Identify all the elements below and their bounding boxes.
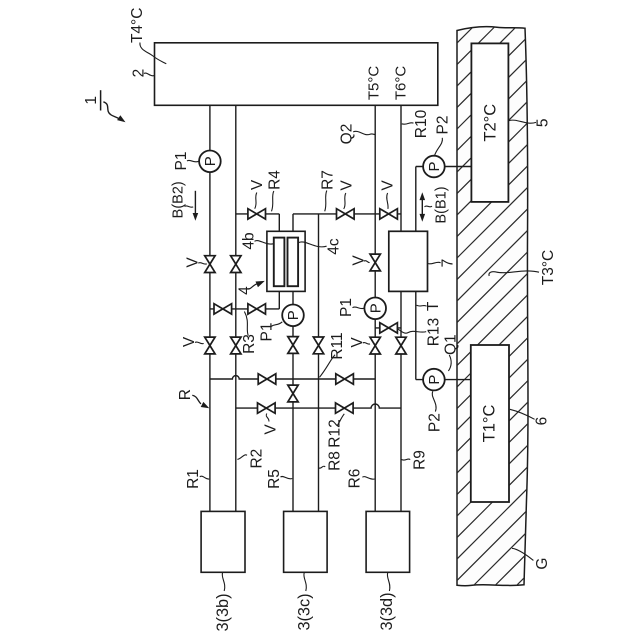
flow arrow B(B2) bbox=[193, 191, 199, 221]
label 4c bbox=[299, 238, 343, 255]
label 6 bbox=[510, 409, 550, 425]
svg-text:P: P bbox=[426, 375, 443, 385]
svg-text:P: P bbox=[426, 161, 443, 171]
pipe R2 (vertical pipe 2, unit2 to 3(3b) right) bbox=[235, 105, 237, 511]
svg-text:R9: R9 bbox=[411, 450, 428, 470]
label R with arrow bbox=[177, 389, 209, 408]
svg-text:1: 1 bbox=[83, 96, 100, 105]
heat source unit 2 bbox=[155, 43, 438, 106]
valve on pipe R8 bbox=[313, 337, 323, 354]
svg-text:3(3b): 3(3b) bbox=[214, 593, 232, 631]
svg-text:R: R bbox=[177, 389, 194, 400]
label R10 bbox=[402, 109, 430, 138]
label 7 bbox=[428, 259, 456, 268]
svg-text:4c: 4c bbox=[325, 238, 342, 255]
label V (R4 valve) bbox=[249, 179, 266, 209]
borehole heat exchanger 5 (T2) bbox=[471, 43, 508, 202]
svg-text:R1: R1 bbox=[185, 469, 202, 489]
pipe R12 (horizontal manifold line 2 with hop over pipe R6) bbox=[236, 404, 401, 408]
svg-text:R4: R4 bbox=[266, 170, 283, 190]
pipe R10 upper (T6 riser, unit2 to tank 7) bbox=[400, 105, 402, 231]
pump P1 (right, on T5 riser) bbox=[364, 298, 386, 320]
valve V on T5 riser bbox=[370, 254, 380, 271]
heat exchanger tube 4c bbox=[288, 238, 299, 287]
label R3 bbox=[241, 312, 258, 354]
label R8 bbox=[319, 451, 344, 471]
tank 7 bbox=[389, 231, 428, 291]
pipe R4 (horizontal branch to heat exchanger 4b) bbox=[236, 213, 279, 215]
label 3(3c) bbox=[296, 573, 314, 631]
pipe R11 (horizontal manifold line 1 with hop over pipe R2) bbox=[210, 376, 375, 379]
valve on manifold line 1 left bbox=[258, 374, 276, 384]
svg-text:R7: R7 bbox=[319, 170, 336, 190]
label V (pipe R upper valve) bbox=[184, 257, 207, 268]
label P1 (right pump) bbox=[338, 298, 364, 317]
label T4°C bbox=[129, 8, 167, 64]
valve R13 bbox=[380, 323, 398, 333]
label R6 bbox=[346, 469, 374, 489]
pump P2 (top right) bbox=[423, 156, 445, 178]
svg-text:T1°C: T1°C bbox=[481, 405, 499, 443]
label R4 bbox=[266, 170, 283, 212]
valve V between risers T5 T6 bbox=[380, 209, 398, 219]
pipe T (tank 7 bottom to pump P2) bbox=[415, 291, 417, 379]
heat exchanger tube 4b bbox=[274, 238, 285, 287]
valve V on pipe R upper bbox=[205, 256, 215, 273]
label 3(3d) bbox=[378, 573, 396, 631]
label T3°C bbox=[489, 250, 557, 285]
svg-text:V: V bbox=[184, 257, 201, 268]
svg-text:T5°C: T5°C bbox=[366, 66, 383, 101]
label R9 bbox=[401, 450, 428, 470]
svg-text:P: P bbox=[367, 303, 384, 313]
svg-text:T3°C: T3°C bbox=[540, 250, 557, 285]
svg-text:R2: R2 bbox=[248, 449, 265, 469]
flow arrow B(B1) double headed bbox=[420, 192, 426, 221]
svg-text:T4°C: T4°C bbox=[129, 8, 146, 43]
label 3(3b) bbox=[214, 573, 232, 632]
label P2 (bottom right) bbox=[426, 391, 443, 432]
svg-text:P2: P2 bbox=[435, 116, 452, 135]
label Q2 bbox=[339, 124, 375, 145]
label 2 bbox=[130, 69, 154, 78]
label R7 bbox=[319, 170, 336, 211]
svg-text:R11: R11 bbox=[329, 332, 346, 359]
unit 3(3b) bbox=[201, 511, 245, 572]
unit 3(3d) bbox=[366, 511, 410, 572]
valve on pipe R5 bbox=[288, 337, 298, 354]
svg-text:R3: R3 bbox=[241, 334, 258, 354]
label B(B2) bbox=[170, 181, 193, 218]
svg-text:Q1: Q1 bbox=[442, 334, 459, 355]
valve V on pipe R lower bbox=[205, 337, 215, 354]
label V (line2 valve) bbox=[262, 414, 279, 435]
valve V on pipe R2 upper bbox=[231, 256, 241, 273]
valve on pipe R3 right bbox=[248, 304, 266, 314]
svg-text:R8: R8 bbox=[326, 451, 343, 471]
svg-text:R5: R5 bbox=[266, 469, 283, 489]
pump P1 (middle, below tube 4c) bbox=[282, 305, 304, 327]
label R11 bbox=[320, 332, 346, 377]
valve on pipe R2 lower bbox=[231, 337, 241, 354]
svg-text:Q2: Q2 bbox=[339, 124, 356, 145]
label G bbox=[512, 548, 551, 569]
svg-text:T: T bbox=[425, 301, 442, 311]
valve V on pipe R4 bbox=[248, 209, 266, 219]
svg-text:R10: R10 bbox=[413, 109, 430, 138]
valve on manifold line 2 left bbox=[258, 403, 276, 413]
svg-text:B(B2): B(B2) bbox=[170, 181, 186, 218]
svg-text:V: V bbox=[262, 424, 279, 435]
valve on pipe R9 bbox=[396, 337, 406, 354]
svg-text:P1: P1 bbox=[338, 298, 355, 317]
pipe from pump P2 top to borehole 5 bbox=[415, 167, 417, 232]
pump P2 (bottom right) bbox=[423, 369, 445, 391]
svg-text:V: V bbox=[249, 179, 266, 190]
pipe R9 (tank 7 to 3(3d) right) bbox=[400, 291, 402, 511]
label R2 bbox=[237, 449, 265, 469]
label P2 (top right) bbox=[435, 116, 452, 156]
valve on manifold line 2 right bbox=[336, 403, 354, 413]
svg-text:5: 5 bbox=[534, 118, 551, 127]
pump P1 (top, on pipe R) bbox=[199, 151, 221, 173]
label V (riser valve) bbox=[380, 180, 397, 209]
label V (R6 valve) bbox=[349, 337, 370, 348]
unit 3(3c) bbox=[284, 511, 328, 572]
label 5 bbox=[509, 118, 552, 127]
label V (pipe R lower valve) bbox=[181, 336, 204, 347]
label 4b bbox=[240, 232, 273, 249]
valve on manifold line 1 right bbox=[336, 374, 354, 384]
svg-text:V: V bbox=[338, 180, 355, 191]
svg-text:G: G bbox=[534, 558, 551, 570]
svg-text:R12: R12 bbox=[326, 419, 343, 447]
label R5 bbox=[266, 469, 293, 489]
label V (R7 valve) bbox=[338, 180, 355, 209]
svg-text:7: 7 bbox=[439, 259, 456, 268]
svg-text:P: P bbox=[202, 156, 219, 166]
label P1 (middle pump) bbox=[258, 322, 282, 342]
pipe R3 (horizontal bypass below heat exchanger) bbox=[210, 308, 279, 310]
svg-text:B(B1): B(B1) bbox=[433, 186, 449, 223]
svg-text:4: 4 bbox=[236, 286, 253, 295]
pipe Q2/R6 (T5 riser, unit2 to 3(3d) left) bbox=[374, 105, 376, 511]
pipe R (vertical pipe 1, unit2 to 3(3b) left) bbox=[209, 105, 211, 511]
svg-text:T2°C: T2°C bbox=[481, 104, 499, 142]
svg-text:V: V bbox=[380, 180, 397, 191]
label Q1 bbox=[442, 334, 459, 371]
pipe R7 (horizontal from 4c to T6 riser) bbox=[292, 214, 294, 231]
figure number 1 with arrow bbox=[83, 90, 126, 122]
svg-text:P: P bbox=[285, 310, 302, 320]
svg-text:R13: R13 bbox=[425, 318, 442, 346]
svg-text:T6°C: T6°C bbox=[392, 66, 409, 101]
label T bbox=[417, 301, 442, 311]
label R13 bbox=[398, 318, 442, 346]
label V (T5 riser valve) bbox=[350, 255, 369, 266]
pipe R13 (cross pipe with valve between risers) bbox=[375, 327, 401, 329]
label 4 with arrow bbox=[236, 281, 265, 295]
valve on pipe R3 left bbox=[214, 304, 232, 314]
svg-text:6: 6 bbox=[533, 417, 550, 426]
svg-text:3(3d): 3(3d) bbox=[378, 592, 396, 630]
heat exchanger 4 outer shell bbox=[267, 231, 305, 291]
svg-text:P2: P2 bbox=[426, 413, 443, 432]
label R1 bbox=[185, 469, 209, 489]
label P1 (top pump) bbox=[173, 152, 199, 171]
ground G hatched region bbox=[450, 0, 535, 640]
valve on pipe R7 bbox=[337, 209, 355, 219]
borehole heat exchanger 6 (T1) bbox=[471, 345, 509, 502]
pipe R5 (4c down to 3(3c) left) bbox=[292, 291, 294, 511]
svg-text:3(3c): 3(3c) bbox=[296, 593, 314, 630]
pipe R8 (vertical, branch line to 3(3c) right) bbox=[318, 214, 320, 512]
valve on pipe R5 lower bbox=[288, 385, 298, 402]
label R12 bbox=[326, 414, 344, 448]
svg-text:R6: R6 bbox=[346, 469, 363, 489]
valve on pipe R6 bbox=[370, 337, 380, 354]
label B(B1) bbox=[425, 186, 450, 223]
